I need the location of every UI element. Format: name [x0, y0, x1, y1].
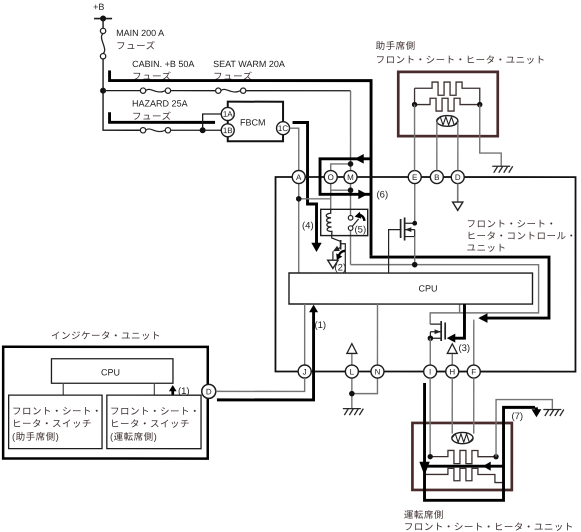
label (7): [511, 411, 523, 422]
wire branch to FBCM 1A: [203, 114, 222, 130]
transistor Q1 relay driver: [332, 236, 346, 273]
svg-text:I: I: [429, 368, 431, 377]
wire A to O and relay coil node: [299, 184, 331, 274]
wire +B feed vertical down to HAZARD fuse row: [103, 59, 140, 130]
svg-text:(2): (2): [334, 263, 346, 274]
wire N to CPU: [376, 304, 378, 365]
heater element driver row 2: [425, 468, 504, 482]
svg-text:(運転席側): (運転席側): [110, 431, 157, 443]
pin J: [298, 365, 311, 378]
heater element passenger row 1: [415, 82, 480, 105]
svg-text:E: E: [412, 173, 417, 182]
svg-text:SEAT WARM 20A: SEAT WARM 20A: [213, 59, 285, 69]
node dot L ground junction: [349, 391, 355, 397]
wire CPU to Q3 drain line: [459, 304, 461, 313]
wire stub below pin D with open arrow: [453, 184, 463, 211]
label driver side heater unit: [404, 509, 574, 532]
svg-text:ヒータ・スイッチ: ヒータ・スイッチ: [110, 419, 190, 430]
arrow curved at Q1, sequence (2): [336, 251, 345, 260]
wire CPU to driver switch: [153, 383, 155, 395]
front seat heater control unit box: [275, 177, 575, 372]
svg-text:M: M: [347, 173, 354, 182]
CPU box of indicator unit: [51, 359, 173, 384]
svg-text:FBCM: FBCM: [240, 117, 266, 127]
fuse CABIN. +B 50A: [140, 88, 170, 93]
wire L N to ground: [352, 378, 378, 408]
label FBCM: [240, 117, 266, 127]
wire thick middle rung of driver loop: [425, 465, 504, 468]
svg-text:CPU: CPU: [101, 367, 120, 377]
ground chassis below L N: [343, 409, 364, 416]
CPU box of control unit: [289, 273, 533, 304]
wire from +B down to MAIN fuse: [102, 19, 104, 29]
MOSFET Q3 driver heater driver: [430, 321, 445, 341]
arrow right on bottom of relay loop: [358, 190, 367, 200]
svg-text:CPU: CPU: [418, 284, 437, 294]
wire 1C to connector A (thin): [290, 128, 299, 170]
svg-text:(1): (1): [314, 320, 326, 331]
svg-text:F: F: [471, 368, 476, 377]
arrow down of path (4): [311, 243, 321, 252]
label (3): [458, 343, 470, 354]
svg-text:D: D: [206, 387, 212, 396]
label (2): [334, 263, 346, 274]
svg-text:HAZARD 25A: HAZARD 25A: [132, 98, 188, 108]
wire indicator D to pin J: [216, 378, 305, 391]
wire thick gate drive path, sequence (3): [454, 304, 464, 338]
svg-text:N: N: [375, 368, 381, 377]
node dot Q2 source junction: [412, 262, 418, 268]
wire pin F to driver thermostat: [473, 378, 475, 434]
wire thermostat to pin B: [436, 122, 438, 170]
svg-text:+B: +B: [93, 2, 104, 12]
wire passenger heater left to pin E: [414, 105, 416, 171]
label (4): [302, 221, 314, 232]
svg-text:フロント・シート・: フロント・シート・: [467, 219, 557, 230]
svg-text:フューズ: フューズ: [132, 110, 172, 122]
node dot driver heater left: [428, 454, 433, 459]
svg-text:1A: 1A: [223, 110, 233, 119]
svg-text:J: J: [303, 368, 307, 377]
open arrow above pin H: [447, 344, 457, 365]
label driver switch: [110, 406, 200, 443]
wire thick HAZARD bus: [110, 112, 216, 122]
pin A: [292, 171, 305, 184]
svg-text:フロント・シート・ヒータ・ユニット: フロント・シート・ヒータ・ユニット: [404, 522, 574, 532]
driver heater unit box: [412, 423, 511, 490]
pin D: [451, 171, 464, 184]
fuse HAZARD 25A: [140, 128, 170, 133]
pin E: [408, 171, 421, 184]
wire passenger heater right to chassis ground: [480, 105, 502, 166]
node dot Q3 source junction: [428, 335, 434, 341]
heater element passenger row 2: [415, 88, 480, 111]
svg-text:B: B: [434, 173, 439, 182]
node junction dot on feed at CABIN fuse row: [100, 88, 106, 94]
pin H: [446, 365, 459, 378]
arrow left mid driver rung: [483, 462, 491, 471]
label (5): [355, 225, 367, 236]
node +B label: [93, 2, 104, 12]
wire driver heater right to chassis ground (7): [496, 400, 552, 457]
label passenger switch: [12, 406, 102, 443]
svg-text:1B: 1B: [223, 126, 233, 135]
node dot driver heater right: [493, 454, 498, 459]
wire thick driver heater flow loop: [425, 383, 535, 500]
arrow into Q2 channel: [405, 227, 411, 232]
svg-text:H: H: [449, 368, 455, 377]
wire J to CPU: [304, 304, 306, 365]
svg-text:(7): (7): [511, 411, 523, 422]
node junction dot 1A/1B branch: [200, 127, 206, 133]
relay coil: [326, 209, 332, 235]
svg-text:ヒータ・スイッチ: ヒータ・スイッチ: [12, 419, 92, 430]
svg-text:(6): (6): [377, 190, 389, 201]
svg-text:1C: 1C: [278, 124, 288, 133]
svg-text:運転席側: 運転席側: [404, 509, 444, 521]
svg-text:(5): (5): [355, 225, 367, 236]
svg-text:MAIN 200 A: MAIN 200 A: [116, 28, 164, 38]
ground triangle below Q1: [328, 260, 338, 268]
arrow into Q3 channel: [435, 329, 441, 334]
svg-text:(4): (4): [302, 221, 314, 232]
FBCM box U2: [228, 102, 283, 142]
wire CPU to passenger switch: [62, 383, 64, 395]
arrow left of path (3): [447, 334, 456, 343]
svg-text:A: A: [296, 173, 302, 182]
label CABIN. +B 50A fuse: [132, 59, 194, 83]
arrow emitter of Q1: [333, 246, 340, 252]
node junction dot at +B terminal: [100, 16, 106, 22]
pin 1C: [277, 122, 290, 135]
svg-text:L: L: [350, 368, 355, 377]
MOSFET Q2 passenger heater driver: [389, 184, 415, 274]
fuse SEAT WARM 20A: [216, 88, 246, 93]
svg-text:CABIN. +B 50A: CABIN. +B 50A: [132, 59, 194, 69]
wire O-M parallel straps: [331, 164, 351, 190]
relay K1 box: [321, 209, 368, 235]
pin L: [345, 365, 358, 378]
svg-text:O: O: [328, 173, 334, 182]
pin 1B: [221, 124, 234, 137]
svg-text:フューズ: フューズ: [116, 40, 156, 52]
svg-text:フロント・シート・: フロント・シート・: [12, 406, 102, 417]
svg-text:ユニット: ユニット: [467, 243, 507, 254]
pin B: [430, 171, 443, 184]
node dot Q2 drain: [412, 221, 417, 226]
label passenger side heater unit: [376, 40, 546, 66]
arrow down mid driver feed: [419, 462, 429, 476]
wire thick main flow from bus to driver side, right loop: [371, 256, 549, 318]
wire pin H to driver thermostat: [451, 378, 453, 434]
wire thick flow loop around relay pins O M with arrows, sequence (6): [320, 159, 371, 195]
node dot M lower strap: [348, 187, 354, 193]
wire thick flow path from 1C down to relay coil, sequence (4): [293, 123, 317, 244]
label (6): [377, 190, 389, 201]
svg-text:フロント・シート・ヒータ・ユニット: フロント・シート・ヒータ・ユニット: [376, 55, 546, 66]
label indicator unit: [51, 331, 161, 342]
pin F: [467, 365, 480, 378]
node junction dot below A: [296, 196, 302, 202]
node dot passenger heater right: [477, 102, 482, 107]
label CPU indicator: [101, 367, 120, 377]
pin 1A: [221, 107, 234, 120]
pin N: [371, 365, 384, 378]
wire HAZARD fuse row to FBCM 1B: [140, 129, 221, 131]
pin M: [344, 171, 357, 184]
label SEAT WARM 20A fuse: [213, 59, 285, 83]
node dot M upper strap: [348, 161, 354, 167]
switch box passenger front seat heater switch: [9, 395, 102, 449]
pin D indicator unit: [202, 384, 216, 398]
wire relay switch output run to MOSFETs: [350, 265, 538, 325]
pin O: [324, 171, 337, 184]
ground chassis driver heater: [543, 409, 564, 416]
svg-text:D: D: [455, 173, 461, 182]
label MAIN 200 A fuse: [116, 28, 164, 52]
label CPU: [418, 284, 437, 294]
wire pin I into driver heater: [429, 378, 431, 457]
arrow left on top of relay loop: [355, 154, 364, 164]
wire CABIN/SEAT WARM fuse row horizontal: [103, 90, 350, 92]
arrow down to ground, sequence (7): [532, 407, 542, 417]
label HAZARD 25A fuse: [132, 98, 188, 122]
label (1) control unit: [314, 320, 326, 331]
label (1) indicator: [178, 386, 190, 397]
svg-text:ヒータ・コントロール・: ヒータ・コントロール・: [467, 231, 577, 242]
arrow up into CPU of path (1): [309, 305, 318, 313]
thermostat passenger: [437, 116, 458, 127]
wire thick switch-signal path with arrow, sequence (1): [217, 311, 314, 400]
switch box driver front seat heater switch: [107, 395, 201, 449]
wire thermostat to pin D: [457, 122, 459, 170]
svg-text:フロント・シート・: フロント・シート・: [110, 406, 200, 417]
wire thick battery bus to SEAT WARM feed (hot at all times bus): [110, 70, 372, 255]
svg-text:(助手席側): (助手席側): [12, 431, 59, 443]
wire M feed vertical through relay switch: [350, 91, 352, 265]
wire +B terminal bar: [94, 18, 112, 20]
thermostat driver: [452, 432, 473, 443]
ground chassis passenger heater: [492, 166, 513, 173]
arrow curved relay closing, sequence (5): [355, 212, 365, 221]
svg-text:(3): (3): [458, 343, 470, 354]
arrow left end of thick right loop: [478, 313, 487, 323]
relay switch contacts: [348, 216, 358, 231]
wire F upward: [473, 320, 475, 366]
node dot passenger heater left: [412, 102, 417, 107]
indicator unit box: [3, 347, 208, 459]
label front seat heater control unit: [467, 219, 577, 254]
arrow thick switch to CPU, sequence (1) indicator: [169, 385, 177, 395]
open arrow above pin L: [347, 344, 357, 365]
svg-text:インジケータ・ユニット: インジケータ・ユニット: [51, 331, 161, 342]
pin I: [424, 365, 437, 378]
passenger heater unit box: [398, 72, 498, 136]
heater element driver row 1: [430, 450, 496, 463]
fuse MAIN 200 A (fusible link symbol): [100, 28, 105, 59]
svg-text:助手席側: 助手席側: [376, 40, 416, 52]
wire Q3 source to pin I: [429, 338, 431, 365]
